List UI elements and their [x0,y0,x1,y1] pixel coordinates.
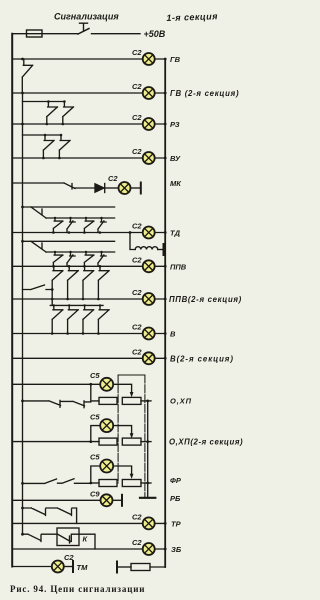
wiper arrow FR [130,474,134,479]
branch wire RZ cluster [23,101,65,103]
wire row V2 [12,357,165,359]
rheostat R-OXP1a [122,397,141,404]
svg-text:С2: С2 [132,222,142,231]
wire FR resistor link [91,482,99,484]
svg-text:С2: С2 [132,512,142,521]
wire MK mid [75,187,95,189]
wire lamp FR to wiper [113,466,131,474]
node V-bus [164,332,167,335]
svg-text:РБ: РБ [170,494,181,503]
svg-text:ВУ: ВУ [170,154,181,163]
wire row TD [12,232,165,234]
contact K-ZB inside box [58,534,95,549]
wire row GV [12,58,165,60]
wire PPV second line [46,251,115,253]
rail mech-link left [117,375,119,483]
svg-text:С2: С2 [132,347,142,356]
wire row PPV2 [12,298,165,300]
node GV-tap [21,58,24,61]
terminal TM [72,561,74,572]
inductor L1 [135,247,158,250]
switch K-MK blade [64,183,75,189]
contact K-TD-2 [67,217,75,233]
lamp PPV2 (C2) [132,288,155,305]
lamp GV2 (C2) [132,82,155,99]
node VU-bus [164,157,167,160]
switch S1 fixed contact [80,23,88,30]
wiper arrow OXP2 [130,433,134,438]
svg-text:С2: С2 [132,538,142,547]
wire TD second line [46,217,115,219]
contact K-PPV-2 [67,251,75,266]
lamp PPV (C2) [132,255,155,272]
contact K-PPV-4 [98,251,106,266]
svg-text:РЗ: РЗ [170,120,180,129]
svg-text:+50В: +50В [144,29,166,39]
branch wire V cluster [50,299,103,305]
svg-text:С2: С2 [132,288,142,297]
TOPWIRE [12,33,78,35]
branch wire VU cluster [23,134,62,136]
node PPV-bus [164,265,167,268]
lamp TM (C2) [52,553,75,573]
node TD-coil-tap [129,231,132,234]
svg-text:ТМ: ТМ [77,563,89,572]
lamp RZ (C2) [132,113,155,130]
node RZ-bus [164,123,167,126]
contact K-TD-0 blade [31,207,46,218]
contact K-PPV2-3 [83,265,94,299]
svg-text:ЗБ: ЗБ [171,545,182,554]
wire OXP1 down-link [91,384,99,401]
switch S1 blade [78,29,89,35]
lamp RB (C9) [90,489,113,506]
wire row ZB [12,548,165,550]
node OXP1-chain [21,400,24,403]
wire TM to terminal [64,566,73,568]
contact K-TD-3 [84,217,93,233]
lamp TR (C2) [132,512,155,529]
svg-text:С2: С2 [132,323,142,332]
lamp OXP2 (C5) [90,412,113,432]
svg-text:С2: С2 [132,113,142,122]
node PPV2-switch-join [51,288,54,291]
svg-text:ППВ(2-я секция): ППВ(2-я секция) [169,295,242,304]
rheostat R-FRa [122,480,141,487]
svg-text:ТД: ТД [170,229,181,238]
contact K-PPV-1 [53,251,62,266]
chain wire FR contacts [23,479,91,484]
node V2-bus [164,357,167,360]
svg-text:С5: С5 [90,412,100,421]
wire RB to terminal [113,499,123,501]
node TR-tap [21,507,24,510]
lamp TD (C2) [132,222,155,239]
node OXP1-tap [89,383,92,386]
node GV2-tap [21,92,24,95]
wire row V [12,333,165,335]
wire row TR [12,522,165,524]
contact K-PPV2-1 [52,265,63,299]
resistor R-bottom [131,564,150,571]
wire row RZ [12,123,165,125]
svg-text:ТР: ТР [171,519,182,528]
lamp V (C2) [132,323,155,340]
svg-text:ФР: ФР [170,476,182,485]
junction dots contact bottoms [51,332,54,335]
contact K-VU-1 [43,134,54,158]
lamp OXP1 (C5) [90,371,113,391]
lamp MK (C2) [108,174,131,194]
RIGHT-BUS [164,59,166,567]
svg-text:С5: С5 [90,453,100,462]
node RZ-tap [21,123,24,126]
wire row OXP1 feed [12,383,100,385]
lamp FR (C5) [90,453,113,473]
svg-text:С5: С5 [90,371,100,380]
diode VD1 [95,184,105,193]
lamp GV (C2) [132,48,155,65]
terminal OXP common [140,497,155,499]
contact K-TD-4 [98,217,106,233]
contact K-TD-1 [53,217,62,233]
resistor R-OXP1 [99,397,117,404]
wire OXP1 out [141,400,151,402]
chain wire TR contacts [23,508,77,523]
node TD-bus [164,231,167,234]
node FR-out [146,482,149,485]
wire FR up-link [91,466,100,483]
node TD-tap [21,206,24,209]
branch wire TD cluster [23,206,115,208]
svg-text:О,ХП(2-я секция): О,ХП(2-я секция) [169,437,243,446]
paper background [0,0,245,600]
contact K-RZ-1 [47,100,58,124]
contact K-RZ-2 [63,100,74,124]
fuse F1 [27,30,43,37]
contact K-V-1 [52,304,63,333]
svg-text:1-я секция: 1-я секция [166,11,218,23]
relay box K [57,528,79,546]
wire OXP2 up-link [91,426,100,442]
contact K-VU-2 [59,134,70,158]
contact K-PPV2-4 [98,265,109,299]
wire OXP common down [147,401,149,497]
svg-text:С2: С2 [132,255,142,264]
terminal RB [121,495,123,506]
wire to +50V [92,33,141,35]
wire diode to lamp [105,187,119,189]
INNER-BUS [22,93,24,534]
rail mech-link right [144,375,146,497]
terminal MK [140,183,142,194]
node ZB-tap [21,533,24,536]
svg-text:Сигнализация: Сигнализация [54,12,119,22]
contact K-PPV2-2 [68,265,79,299]
wire lamp to terminal [131,187,141,189]
contact K-V-4 [98,304,109,333]
wire row TM [12,566,52,568]
terminal bottom-right [116,562,118,573]
svg-text:Рис. 94. Цепи сигнализации: Рис. 94. Цепи сигнализации [10,584,145,594]
terminal TD-coil [163,244,165,255]
wire lamp OXP2 to wiper [113,426,131,434]
rail mech-link top [118,374,145,376]
rheostat R-OXP2a [122,438,141,445]
svg-text:О,ХП: О,ХП [170,397,192,406]
svg-text:С2: С2 [132,82,142,91]
lamp VU (C2) [132,147,155,164]
contact K-GV2 on inner bus [22,59,32,93]
svg-text:ГВ (2-я секция): ГВ (2-я секция) [170,89,239,98]
wire coil to terminal [158,249,163,251]
svg-text:ГВ: ГВ [170,55,181,64]
switch K-PPV2 from inner bus [23,285,53,290]
LEFT-BUS [11,34,13,567]
svg-text:МК: МК [170,179,182,188]
wire row VU [12,157,165,159]
contact K-PPV-3 [84,251,93,266]
wire row MK left [12,182,64,184]
contact K-PPV-0 blade [31,241,46,252]
wire row OXP2 feed [12,441,99,443]
resistor R-OXP2 [99,438,117,445]
lamp ZB (C2) [132,538,155,555]
branch wire PPV cluster [23,240,115,242]
contact K-V-2 [68,304,79,333]
wire lamp OXP1 to wiper [113,384,131,392]
wire resistor to bus [150,566,165,568]
wire OXP2 out [141,441,151,443]
resistor R-FR [99,480,117,487]
wire row GV2 [12,92,165,94]
node ZB-bus [164,548,167,551]
node PPV2-bus [164,298,167,301]
svg-text:В(2-я секция): В(2-я секция) [170,354,234,363]
chain wire OXP1 contacts [23,400,91,407]
wire row PPV [12,265,165,267]
svg-text:С2: С2 [132,147,142,156]
wire terminal to resistor [117,566,131,568]
node GV-bus [164,58,167,61]
node PPV-tap [21,240,24,243]
chain wire ZB contacts [23,534,58,541]
node FR-tap [89,482,92,485]
svg-text:С2: С2 [108,174,118,183]
wire coil branch [130,233,135,250]
wire row RB [12,499,100,501]
svg-text:С2: С2 [132,48,142,57]
wiper arrow OXP1 [130,392,134,397]
svg-text:В: В [170,330,176,339]
node TR-bus [164,522,167,525]
node OXP2-tap [89,440,92,443]
wire FR out [141,482,151,484]
node GV2-bus [164,92,167,95]
node OXP2-out [146,440,149,443]
node FR-chain-tap [21,482,24,485]
svg-text:С9: С9 [90,489,100,498]
lamp V2 (C2) [132,347,155,364]
node OXP1-out [146,400,149,403]
svg-text:ППВ: ППВ [170,262,187,271]
contact K-V-3 [83,304,94,333]
